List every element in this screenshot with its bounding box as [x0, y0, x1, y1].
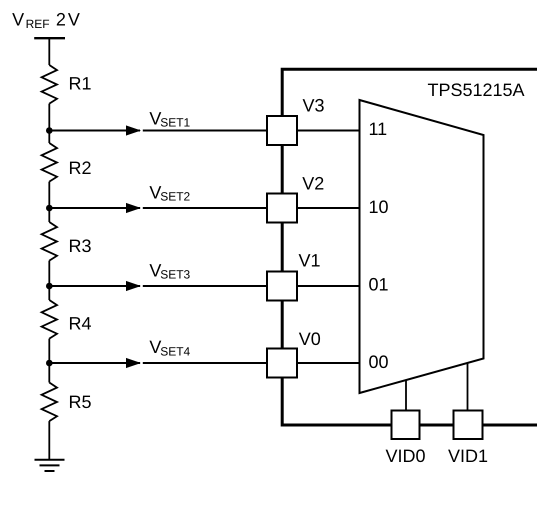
- arrow VSET1: [126, 125, 141, 135]
- svg-text:V0: V0: [299, 329, 321, 349]
- wire mux to pin VID0: [405, 380, 407, 410]
- VREF power rail symbol: [34, 37, 65, 39]
- wire pin V1 to mux input 01: [298, 285, 360, 287]
- svg-text:V3: V3: [303, 96, 325, 116]
- wire node VSET2 to pin V2: [49, 207, 140, 209]
- node VSET4 junction dot: [46, 360, 53, 367]
- svg-text:SET1: SET1: [160, 115, 190, 129]
- svg-text:V1: V1: [299, 250, 321, 270]
- resistor R5: [42, 383, 57, 422]
- wire R4 to node VSET4: [48, 339, 50, 363]
- node VSET1 junction dot: [46, 127, 53, 134]
- pin V3 box: [267, 116, 297, 145]
- IC TPS51215A boundary: [282, 69, 537, 425]
- wire R5 to ground: [48, 421, 50, 459]
- resistor R3: [42, 222, 57, 261]
- svg-text:R3: R3: [69, 236, 92, 256]
- wire node VSET4 to R5: [48, 363, 50, 383]
- svg-text:R4: R4: [69, 314, 92, 334]
- pin VID1 box: [454, 411, 483, 440]
- svg-text:VID1: VID1: [448, 446, 488, 466]
- svg-text:VID0: VID0: [385, 446, 425, 466]
- arrow VSET3: [126, 281, 141, 291]
- wire node VSET3 to pin V1: [49, 285, 140, 287]
- svg-text:01: 01: [369, 275, 389, 295]
- arrow VSET2: [126, 203, 141, 213]
- wire node VSET1 to R2: [48, 131, 50, 144]
- wire R2 to node VSET2: [48, 182, 50, 208]
- wire pin V2 to mux input 10: [298, 207, 360, 209]
- wire node VSET2 to R3: [48, 208, 50, 222]
- svg-text:TPS51215A: TPS51215A: [428, 80, 525, 100]
- svg-text:SET4: SET4: [160, 344, 190, 358]
- resistor R1: [42, 65, 57, 104]
- arrow VSET4: [126, 358, 141, 368]
- wire node VSET1 to pin V3: [49, 130, 140, 132]
- wire VREF rail to R1: [48, 38, 50, 65]
- svg-text:REF: REF: [26, 17, 50, 31]
- label VSET1: [149, 108, 190, 129]
- pin V2 box: [267, 194, 297, 223]
- label VSET3: [149, 261, 190, 282]
- wire R3 to node VSET3: [48, 261, 50, 286]
- ground: [35, 460, 65, 471]
- label VSET4: [149, 337, 190, 358]
- pin V0 box: [267, 349, 297, 378]
- pin V1 box: [267, 272, 297, 301]
- svg-text:R5: R5: [69, 392, 92, 412]
- wire pin V0 to mux input 00: [298, 362, 360, 364]
- resistor R4: [42, 300, 57, 339]
- wire node VSET4 to pin V0: [49, 362, 140, 364]
- resistor R2: [42, 143, 57, 182]
- wire node VSET3 to R4: [48, 286, 50, 300]
- svg-text:00: 00: [369, 352, 389, 372]
- node VSET2 junction dot: [46, 205, 53, 212]
- wire mux to pin VID1: [467, 363, 469, 410]
- net VREF label "VREF 2 V": [12, 10, 80, 31]
- svg-text:V: V: [12, 10, 24, 30]
- pin VID0 box: [392, 411, 420, 440]
- svg-text:V: V: [68, 10, 80, 30]
- svg-text:SET3: SET3: [160, 268, 190, 282]
- svg-text:R1: R1: [69, 74, 92, 94]
- wire R1 to node VSET1: [48, 104, 50, 131]
- svg-text:R2: R2: [69, 158, 92, 178]
- label VSET2: [149, 182, 190, 203]
- svg-text:11: 11: [369, 119, 388, 139]
- svg-text:2: 2: [56, 10, 66, 30]
- node VSET3 junction dot: [46, 283, 53, 290]
- svg-text:SET2: SET2: [160, 190, 190, 204]
- svg-text:10: 10: [369, 197, 389, 217]
- wire pin V3 to mux input 11: [298, 130, 360, 132]
- mux U1 trapezoid: [360, 100, 484, 393]
- svg-text:V2: V2: [302, 174, 324, 194]
